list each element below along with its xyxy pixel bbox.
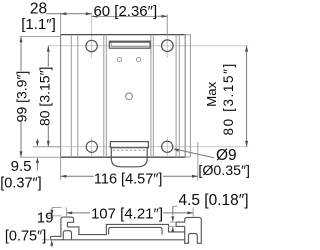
svg-text:60 [2.36″]: 60 [2.36″] bbox=[93, 3, 157, 20]
svg-text:107 [4.21″]: 107 [4.21″] bbox=[91, 205, 163, 222]
svg-text:[Ø0.35″]: [Ø0.35″] bbox=[198, 163, 250, 179]
svg-text:[1.1″]: [1.1″] bbox=[21, 16, 56, 33]
svg-text:4.5 [0.18″]: 4.5 [0.18″] bbox=[178, 192, 248, 209]
svg-text:[0.75″]: [0.75″] bbox=[5, 228, 46, 244]
svg-text:116 [4.57″]: 116 [4.57″] bbox=[94, 172, 163, 188]
svg-text:[0.37″]: [0.37″] bbox=[0, 175, 41, 191]
svg-text:Max: Max bbox=[204, 81, 219, 106]
svg-text:9.5: 9.5 bbox=[11, 158, 32, 175]
svg-text:80 [3.15″]: 80 [3.15″] bbox=[221, 62, 236, 135]
svg-text:80 [3.15″]: 80 [3.15″] bbox=[37, 67, 53, 126]
svg-text:Ø9: Ø9 bbox=[216, 147, 237, 164]
svg-text:19: 19 bbox=[37, 210, 54, 227]
svg-text:99 [3.9″]: 99 [3.9″] bbox=[14, 71, 30, 123]
